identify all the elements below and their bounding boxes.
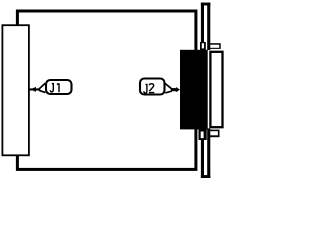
bracket bottom screw block — [199, 129, 207, 140]
mounting bracket channel — [201, 3, 210, 178]
board outline — [17, 11, 196, 169]
label text J2 — [144, 84, 154, 93]
bracket top screw block — [200, 42, 206, 50]
callout J2 balloon — [140, 79, 165, 95]
bracket bottom tab (screw tab) — [208, 130, 220, 138]
connector J1 (edge connector, white body) — [2, 25, 29, 155]
connector J2 outer flange plate — [210, 52, 222, 127]
bracket top tab (screw tab) — [208, 43, 221, 49]
connector J2 body (D-sub, solid black) — [180, 50, 208, 130]
callout J2 arrow — [165, 84, 180, 93]
label text J1 — [50, 83, 59, 92]
callout J1 arrow — [29, 83, 45, 92]
callout J1 balloon — [46, 80, 72, 94]
